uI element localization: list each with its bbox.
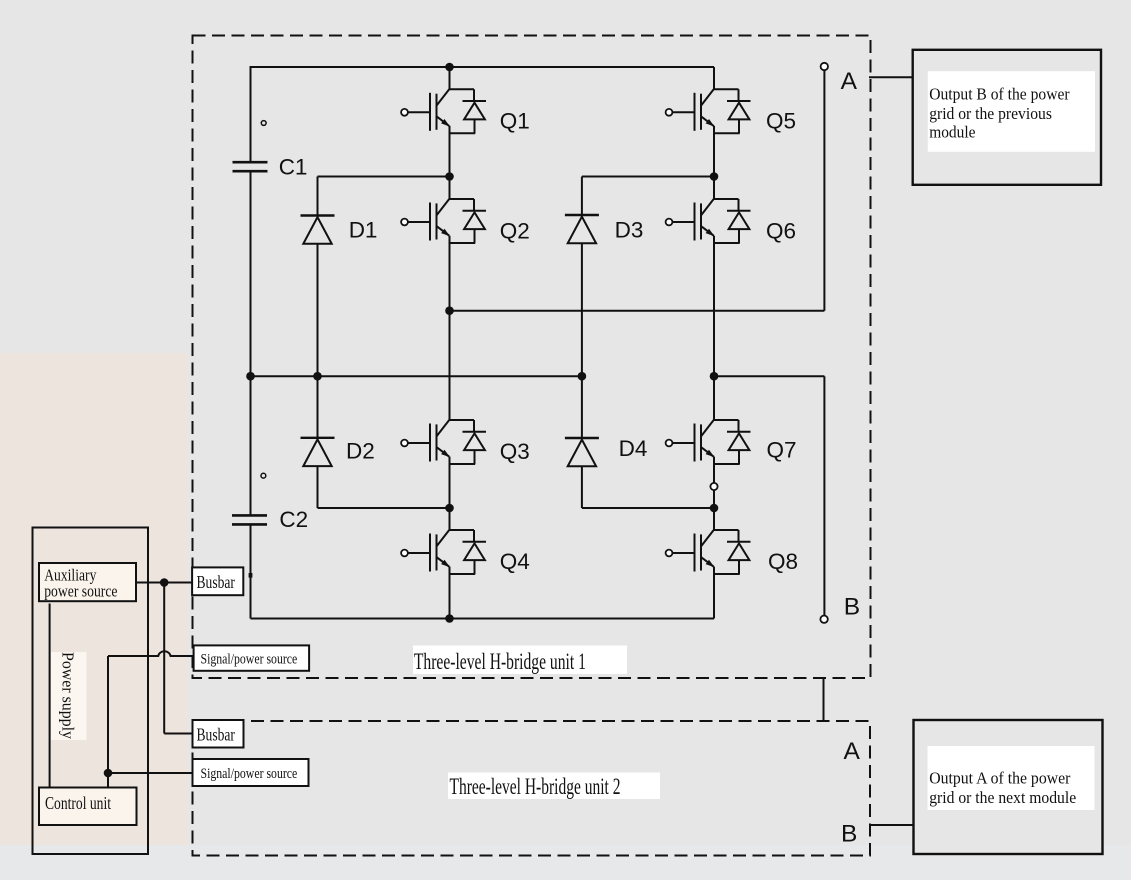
svg-text:Output B of the power: Output B of the power: [929, 85, 1070, 104]
wire terminal A to Output B box: [869, 76, 913, 78]
wire Q1 collector lead: [449, 67, 451, 89]
svg-text:A: A: [844, 738, 861, 765]
wire top DC rail: [251, 66, 715, 68]
power supply label strip: [51, 652, 87, 740]
wire bottom DC rail: [251, 618, 715, 620]
junction node Q7/Q8/D4: [710, 504, 719, 513]
small marker circle above C1: [261, 121, 266, 126]
capacitor C2: [232, 515, 267, 524]
wire Q5 collector lead: [713, 67, 715, 89]
svg-text:D3: D3: [615, 218, 644, 243]
svg-text:Busbar: Busbar: [197, 725, 236, 745]
junction node Q4 / bottom rail: [445, 614, 454, 623]
wire D1 cathode lead: [317, 177, 319, 216]
svg-text:Q1: Q1: [500, 109, 530, 134]
wire output A horizontal from Q2/Q3 node: [450, 310, 825, 312]
wire left rail middle (C1 bottom to C2 top): [250, 172, 252, 516]
wire D1 branch horizontal to Q1/Q2 node: [318, 176, 450, 178]
wire D3 branch horizontal to Q5/Q6 node: [582, 176, 714, 178]
junction node phase B takeoff: [710, 372, 719, 381]
svg-text:C2: C2: [279, 507, 308, 532]
wire output B horizontal from Q6/Q7 node: [714, 375, 824, 377]
svg-text:Signal/power source: Signal/power source: [201, 766, 298, 782]
svg-text:Busbar: Busbar: [197, 572, 236, 592]
wire signal/power source 1 with crossover hop: [108, 651, 193, 656]
wire output A vertical riser to terminal A: [823, 70, 825, 311]
svg-text:D2: D2: [346, 439, 375, 464]
svg-text:Q7: Q7: [767, 438, 797, 463]
wire D2 anode lead down: [317, 466, 319, 508]
tick mark on left rail near busbar: [249, 573, 253, 578]
transistor Q3: [401, 420, 486, 464]
svg-text:grid or the next module: grid or the next module: [929, 788, 1076, 807]
svg-text:B: B: [841, 821, 857, 848]
terminal B (open circle): [820, 616, 827, 623]
wire into Busbar 2: [164, 733, 193, 735]
wire Q7 emitter to Q8 collector: [713, 457, 715, 530]
wire auxiliary power source to Busbar 1: [136, 582, 193, 584]
svg-text:module: module: [929, 123, 975, 142]
svg-text:Output A of the power: Output A of the power: [929, 769, 1071, 788]
junction node phase A takeoff: [445, 306, 454, 315]
wire output B vertical drop to terminal B: [823, 376, 825, 616]
diode D3: [565, 215, 599, 243]
wire D4 to Q7/Q8 node: [582, 507, 714, 509]
auxiliary power source box: [39, 563, 136, 601]
unit 1 caption panel: [413, 646, 627, 675]
svg-text:B: B: [844, 594, 860, 621]
svg-text:Q6: Q6: [766, 219, 796, 244]
junction node neutral / left rail: [246, 372, 255, 381]
wire unit2 terminal B to Output A box: [870, 824, 914, 826]
wire D3 cathode lead: [581, 177, 583, 216]
wire Q8 emitter to bottom rail: [713, 567, 715, 619]
svg-text:power source: power source: [44, 582, 117, 601]
svg-text:Q4: Q4: [500, 549, 530, 574]
junction node Q1/Q2/D1: [445, 172, 454, 181]
power supply outer box: [33, 528, 149, 855]
Output B box (top right): [913, 50, 1101, 185]
busbar box 2: [193, 720, 244, 748]
junction node neutral / D3 D4: [578, 372, 587, 381]
small marker circle above C2: [261, 473, 266, 478]
wire left rail upper (to C1 top): [250, 66, 252, 162]
transistor Q6: [666, 199, 751, 243]
svg-text:Q3: Q3: [500, 439, 530, 464]
terminal A (open circle): [821, 63, 828, 70]
junction node aux to busbars: [160, 578, 169, 587]
wire vertical from aux/busbar junction down: [163, 583, 165, 734]
svg-text:Q8: Q8: [768, 549, 798, 574]
svg-text:Three-level H-bridge unit 2: Three-level H-bridge unit 2: [450, 774, 621, 800]
wire Q2 emitter down to Q3 collector: [449, 236, 451, 420]
svg-text:Control unit: Control unit: [45, 793, 111, 813]
busbar box 1: [192, 567, 243, 595]
wire left rail lower (C2 bottom to bottom rail): [250, 525, 252, 619]
control unit box: [39, 788, 137, 826]
diode D2: [301, 438, 335, 466]
wire Q3 emitter to Q4 collector: [449, 457, 451, 530]
dashed boundary of H-bridge unit 1: [193, 36, 871, 679]
pink side panel background: [0, 353, 188, 845]
junction node signal wire split: [104, 769, 113, 778]
junction node top rail / Q1: [445, 63, 454, 72]
wire Q4 emitter to bottom rail: [449, 567, 451, 619]
Output A box (bottom right): [914, 720, 1103, 854]
svg-text:Three-level H-bridge unit 1: Three-level H-bridge unit 1: [414, 649, 586, 675]
wire Q5 emitter to Q6 collector: [713, 126, 715, 199]
svg-text:Power supply: Power supply: [59, 652, 78, 739]
wire vertical from signal wire down to control unit: [107, 656, 109, 788]
open connector on Q7 emitter lead: [710, 483, 717, 490]
bottom strip background: [0, 845, 1131, 880]
transistor Q2: [401, 199, 486, 243]
wire D4 anode lead down: [581, 466, 583, 508]
wire D3 anode to D4 cathode (through neutral node): [581, 244, 583, 439]
junction node Q3/Q4/D2: [445, 504, 454, 513]
wire D1 anode to D2 cathode (through neutral node): [317, 244, 319, 438]
svg-text:C1: C1: [279, 155, 308, 180]
unit 2 caption panel: [448, 773, 660, 800]
transistor Q7: [666, 420, 751, 464]
wire Q6 emitter down to Q7 collector: [713, 236, 715, 420]
svg-text:grid or the previous: grid or the previous: [929, 104, 1052, 123]
svg-text:D4: D4: [619, 436, 648, 461]
wire D2 to Q3/Q4 node: [318, 507, 450, 509]
dashed boundary of H-bridge unit 2: [193, 721, 871, 856]
wire junction to signal/power source 2: [108, 772, 193, 774]
diode D1: [301, 216, 335, 244]
transistor Q4: [401, 530, 486, 574]
svg-text:Q5: Q5: [766, 109, 796, 134]
transistor Q1: [401, 89, 486, 133]
transistor Q8: [666, 530, 751, 574]
diode D4: [565, 438, 599, 466]
wire unit1 to unit2 interconnection: [823, 678, 825, 721]
svg-text:Signal/power source: Signal/power source: [201, 651, 298, 667]
svg-text:D1: D1: [349, 218, 378, 243]
junction node neutral / D1 D2: [313, 372, 322, 381]
Output A white text panel: [928, 746, 1095, 810]
capacitor C1: [233, 162, 268, 171]
Output B white text panel: [928, 71, 1095, 152]
signal/power source box 1: [194, 645, 310, 670]
wire neutral mid rail: [251, 375, 582, 377]
junction node Q5/Q6/D3: [710, 172, 719, 181]
signal/power source box 2: [193, 759, 309, 786]
wire auxiliary power source to control unit: [49, 604, 51, 789]
svg-text:A: A: [841, 68, 858, 95]
wire Q1 emitter to Q2 collector: [449, 126, 451, 199]
transistor Q5: [666, 89, 751, 133]
svg-text:Q2: Q2: [500, 219, 530, 244]
